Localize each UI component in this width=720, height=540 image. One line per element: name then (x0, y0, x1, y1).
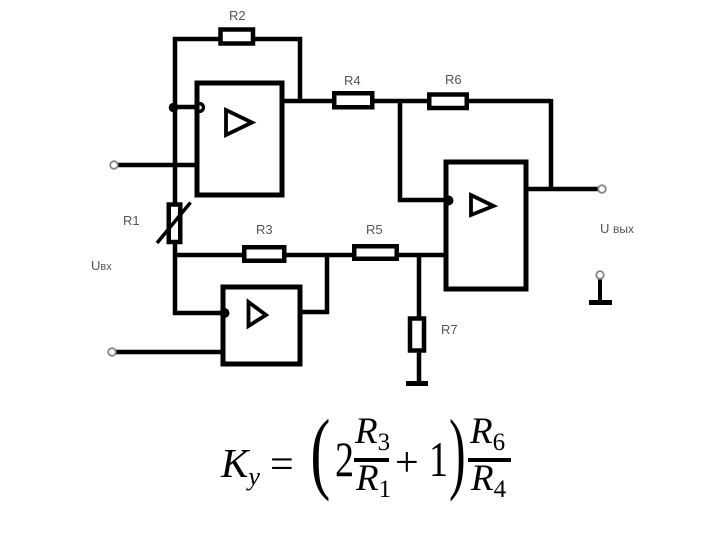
wire: lower output terminal stub (598, 278, 602, 303)
resistor R1 (adjustable) (169, 205, 181, 243)
node: U3 input pin dot (220, 308, 230, 318)
wire: left vertical main bus through R1 (173, 105, 178, 315)
node: U1 input pin dot (196, 104, 204, 112)
svg-text:Uвых: Uвых (600, 221, 634, 236)
svg-text:R1: R1 (123, 213, 140, 228)
wire: tap to op-amp U1 inverting input (173, 105, 198, 110)
resistor R3 (244, 247, 284, 261)
svg-text:R5: R5 (366, 222, 383, 237)
wire: input 2 to U3 (116, 350, 224, 355)
svg-text:R4: R4 (344, 73, 361, 88)
formula Ky = (2 R3/R1 + 1) R6/R4 (221, 439, 260, 492)
svg-text:R3: R3 (256, 222, 273, 237)
node: U2 input pin dot (444, 196, 454, 206)
wire: top feedback loop horizontal (R2 row) (175, 39, 300, 110)
op-amp U2 (446, 162, 526, 289)
wire: U1 output row through R4 and R6 (281, 99, 551, 104)
op-amp U3 (223, 287, 300, 364)
resistor R4 (334, 93, 372, 107)
wire: R6 right leg down to output (549, 99, 554, 191)
terminal: lower output (596, 271, 604, 279)
svg-text:R7: R7 (441, 322, 458, 337)
wire: U3 output feedback leg (299, 253, 327, 312)
svg-text:R6: R6 (445, 72, 462, 87)
wire: U3 inverting input tap (173, 311, 224, 316)
terminal: output (598, 185, 606, 193)
wire: junction leg down to U2 inverting input (400, 101, 447, 200)
terminal: input 1 (110, 161, 118, 169)
resistor R2 (221, 30, 254, 44)
op-amp U1 (197, 83, 282, 195)
terminal: input 2 (108, 348, 116, 356)
svg-text:Uвх: Uвх (91, 258, 112, 273)
resistor R7 (410, 319, 424, 351)
wire: input 1 to U1 (118, 163, 198, 168)
resistor R6 (429, 95, 467, 109)
wire: R7 leg (417, 253, 422, 382)
node: U1 inverting junction dot (169, 103, 179, 113)
svg-text:R2: R2 (229, 8, 246, 23)
ground (lower right) (589, 300, 612, 305)
resistor R5 (354, 246, 397, 259)
wire: bottom row through R3 and R5 (173, 253, 447, 258)
wire: U2 output to terminal (525, 187, 598, 192)
ground (below R7) (406, 381, 428, 386)
